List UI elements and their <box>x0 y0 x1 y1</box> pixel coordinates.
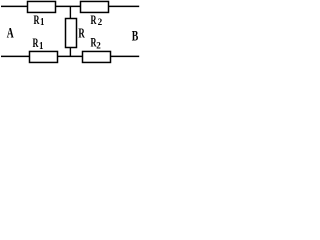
resistor R1 top box <box>28 1 56 12</box>
wire bottom horizontal rail <box>1 55 139 57</box>
resistor R middle vertical box <box>66 19 77 48</box>
svg-text:1: 1 <box>39 41 44 52</box>
svg-text:2: 2 <box>98 18 103 28</box>
svg-text:R: R <box>33 37 39 50</box>
svg-text:2: 2 <box>96 41 101 51</box>
svg-text:1: 1 <box>40 17 45 28</box>
svg-text:A: A <box>7 24 14 41</box>
wire top horizontal rail <box>1 5 139 7</box>
wire vertical stub joining rails through R <box>69 6 71 56</box>
resistor R2 bottom box <box>83 51 111 62</box>
svg-text:R: R <box>34 15 40 28</box>
svg-text:R: R <box>91 15 97 28</box>
resistor R1 bottom box <box>30 51 58 62</box>
svg-text:B: B <box>132 27 139 43</box>
resistor R2 top box <box>81 1 109 12</box>
svg-text:R: R <box>78 25 85 41</box>
